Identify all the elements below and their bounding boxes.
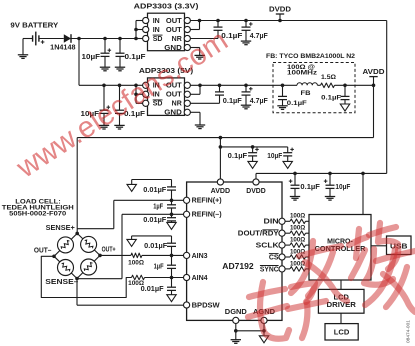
svg-text:DRIVER: DRIVER bbox=[327, 302, 356, 309]
svg-text:100Ω: 100Ω bbox=[290, 225, 305, 232]
svg-text:100Ω: 100Ω bbox=[290, 213, 305, 220]
svg-text:10µF: 10µF bbox=[82, 54, 101, 61]
svg-text:505H-0002-F070: 505H-0002-F070 bbox=[9, 211, 67, 218]
svg-text:BPDSW: BPDSW bbox=[192, 302, 221, 309]
svg-text:CS: CS bbox=[269, 254, 279, 261]
svg-text:REFIN(–): REFIN(–) bbox=[192, 212, 222, 219]
svg-text:0.01µF: 0.01µF bbox=[141, 286, 165, 293]
svg-text:100Ω: 100Ω bbox=[290, 237, 305, 244]
svg-text:0.1µF: 0.1µF bbox=[223, 98, 243, 105]
svg-text:DVDD: DVDD bbox=[246, 188, 266, 195]
svg-text:SD: SD bbox=[153, 36, 163, 43]
svg-text:1.5Ω: 1.5Ω bbox=[321, 74, 336, 81]
svg-text:DVDD: DVDD bbox=[269, 6, 291, 13]
svg-text:SENSE+: SENSE+ bbox=[46, 225, 75, 232]
svg-text:ADP3303 (3.3V): ADP3303 (3.3V) bbox=[134, 1, 199, 10]
svg-text:DGND: DGND bbox=[225, 309, 247, 316]
svg-text:4.7µF: 4.7µF bbox=[250, 98, 269, 105]
svg-text:100Ω: 100Ω bbox=[128, 259, 144, 266]
svg-text:SYNC: SYNC bbox=[260, 266, 279, 273]
svg-text:NR: NR bbox=[172, 36, 182, 43]
svg-text:FB: FB bbox=[301, 90, 311, 97]
svg-text:AIN3: AIN3 bbox=[192, 253, 208, 260]
svg-text:AD7192: AD7192 bbox=[222, 261, 254, 271]
svg-text:AVDD: AVDD bbox=[363, 69, 385, 76]
svg-text:10µF: 10µF bbox=[335, 184, 351, 191]
svg-text:IN: IN bbox=[153, 18, 160, 25]
svg-text:OUT+: OUT+ bbox=[102, 247, 116, 254]
svg-text:0.1µF: 0.1µF bbox=[321, 95, 341, 102]
svg-text:SCLK: SCLK bbox=[256, 243, 279, 250]
svg-text:9V BATTERY: 9V BATTERY bbox=[10, 23, 58, 30]
svg-text:0.01µF: 0.01µF bbox=[143, 217, 167, 224]
svg-text:0.1µF: 0.1µF bbox=[300, 184, 320, 191]
svg-text:IN: IN bbox=[153, 27, 160, 34]
svg-text:0.01µF: 0.01µF bbox=[144, 243, 168, 250]
svg-text:0.1µF: 0.1µF bbox=[287, 100, 307, 107]
svg-text:DOUT/RDY: DOUT/RDY bbox=[238, 231, 279, 238]
svg-text:AVDD: AVDD bbox=[211, 188, 231, 195]
svg-text:0.1µF: 0.1µF bbox=[125, 54, 147, 61]
svg-text:FB: TYCO BMB2A1000L N2: FB: TYCO BMB2A1000L N2 bbox=[266, 53, 355, 60]
svg-text:AIN4: AIN4 bbox=[192, 275, 208, 282]
svg-text:4.7µF: 4.7µF bbox=[250, 33, 269, 40]
svg-text:08474-001: 08474-001 bbox=[406, 320, 412, 343]
svg-text:SENSE–: SENSE– bbox=[45, 279, 78, 286]
svg-text:NR: NR bbox=[172, 101, 182, 108]
svg-text:0.1µF: 0.1µF bbox=[228, 153, 248, 160]
svg-text:OUT: OUT bbox=[166, 18, 183, 25]
svg-text:1µF: 1µF bbox=[154, 264, 165, 271]
svg-text:10µF: 10µF bbox=[267, 153, 283, 160]
svg-text:OUT–: OUT– bbox=[34, 247, 52, 254]
svg-text:REFIN(+): REFIN(+) bbox=[192, 198, 222, 205]
svg-text:OUT: OUT bbox=[166, 27, 183, 34]
svg-text:DIN: DIN bbox=[264, 219, 279, 226]
svg-text:100Ω: 100Ω bbox=[128, 280, 144, 287]
svg-text:0.01µF: 0.01µF bbox=[143, 187, 167, 194]
svg-text:LCD: LCD bbox=[334, 330, 350, 337]
svg-text:GND: GND bbox=[164, 110, 182, 117]
svg-text:100MHz: 100MHz bbox=[287, 69, 317, 76]
svg-text:1µF: 1µF bbox=[153, 204, 164, 211]
svg-text:1N4148: 1N4148 bbox=[50, 45, 75, 52]
